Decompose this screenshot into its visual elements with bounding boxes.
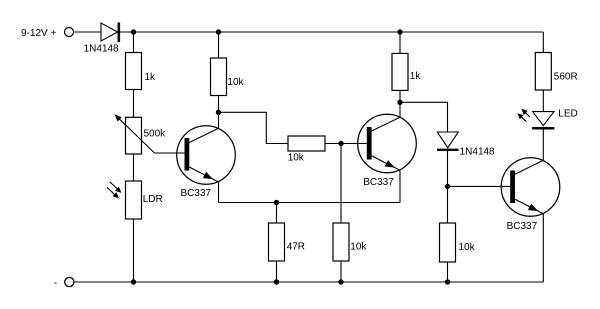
svg-text:10k: 10k bbox=[459, 242, 476, 253]
wire R7 to bottom rail bbox=[447, 262, 449, 282]
node Q2 base junction bbox=[338, 141, 343, 146]
transistor Q1 BC337 bbox=[177, 126, 236, 185]
wire LDR to bottom rail bbox=[133, 219, 135, 282]
svg-text:10k: 10k bbox=[288, 153, 305, 164]
node junction top-left (D1 cathode / R1) bbox=[131, 29, 136, 34]
wire LED to Q3 collector bbox=[542, 128, 544, 160]
LED D3 bbox=[532, 112, 554, 129]
wire emitter rail Q1-Q2 bbox=[219, 202, 401, 204]
resistor R8 560R bbox=[535, 53, 551, 91]
wire R4 to bottom rail bbox=[276, 261, 278, 282]
wire Q3 emitter down bbox=[542, 214, 544, 282]
node bottom rail at R5 bbox=[338, 279, 343, 284]
svg-text:1N4148: 1N4148 bbox=[460, 147, 495, 158]
node bottom rail at R4 bbox=[274, 279, 279, 284]
resistor R3 10k (horizontal) bbox=[288, 136, 325, 151]
node Q1 collector junction bbox=[216, 110, 221, 115]
LDR body bbox=[126, 181, 142, 219]
potentiometer VR1 500k body bbox=[126, 117, 142, 154]
wire top rail corner to R8 bbox=[542, 32, 544, 53]
svg-text:9-12V +: 9-12V + bbox=[21, 28, 56, 39]
node junction top at R2 column bbox=[216, 29, 221, 34]
svg-text:-: - bbox=[54, 278, 57, 289]
terminal + (positive supply) bbox=[65, 28, 74, 37]
wire node to Q3 base bbox=[448, 185, 511, 187]
wire potentiometer to LDR bbox=[133, 154, 135, 181]
svg-text:560R: 560R bbox=[554, 72, 578, 83]
wire D2 to Q3 base node bbox=[447, 150, 449, 186]
svg-text:10k: 10k bbox=[350, 242, 367, 253]
resistor R1 1k bbox=[126, 53, 142, 90]
wire R8 to LED bbox=[542, 90, 544, 112]
wire Q2 collector junction to D2 bbox=[400, 102, 448, 132]
wire top rail bbox=[120, 31, 543, 33]
wire Q1 collector junction to R3 bbox=[219, 112, 289, 143]
LED light arrows bbox=[517, 109, 530, 122]
wire R1 to potentiometer bbox=[133, 90, 135, 118]
wire pot wiper to Q1 base bbox=[155, 152, 185, 154]
svg-text:BC337: BC337 bbox=[363, 177, 394, 188]
transistor Q2 BC337 bbox=[358, 114, 417, 173]
wire top rail to R2 bbox=[218, 32, 220, 58]
wire R2 to Q1 collector bbox=[218, 96, 220, 129]
resistor R4 47R bbox=[269, 223, 285, 261]
svg-text:47R: 47R bbox=[287, 242, 305, 253]
resistor R7 10k bbox=[440, 223, 456, 262]
wire bottom rail bbox=[74, 281, 543, 283]
svg-text:BC337: BC337 bbox=[507, 221, 538, 232]
wire node to R4 bbox=[276, 203, 278, 224]
svg-text:LED: LED bbox=[558, 108, 577, 119]
node Q3 base junction bbox=[445, 184, 450, 189]
node bottom rail at LDR column bbox=[131, 279, 136, 284]
svg-text:1N4148: 1N4148 bbox=[84, 44, 119, 55]
LDR light arrows bbox=[107, 182, 121, 198]
svg-text:10k: 10k bbox=[227, 77, 244, 88]
wire R5 to bottom rail bbox=[340, 261, 342, 282]
wire R6 to Q2 collector bbox=[399, 90, 401, 117]
resistor R6 1k bbox=[392, 53, 408, 90]
diode D2 1N4148 (vertical) bbox=[437, 132, 459, 150]
wire R3 to Q2 base bbox=[325, 143, 367, 145]
potentiometer wiper arrow bbox=[114, 114, 154, 153]
terminal - (negative supply) bbox=[65, 277, 74, 286]
node emitter rail to R4 bbox=[274, 200, 279, 205]
wire node down to R7 bbox=[447, 186, 449, 223]
svg-text:BC337: BC337 bbox=[181, 188, 212, 199]
wire top rail to R1 bbox=[133, 32, 135, 53]
resistor R2 10k bbox=[211, 58, 227, 96]
diode D1 1N4148 bbox=[101, 23, 119, 43]
node Q2 collector junction bbox=[397, 100, 402, 105]
resistor R5 10k bbox=[333, 223, 349, 261]
wire top rail to R6 bbox=[399, 32, 401, 53]
svg-text:LDR: LDR bbox=[143, 194, 163, 205]
node bottom rail at R7 bbox=[445, 279, 450, 284]
svg-text:1k: 1k bbox=[410, 71, 422, 82]
wire Q2 base junction down to R5 bbox=[340, 144, 342, 224]
svg-text:1k: 1k bbox=[145, 72, 157, 83]
transistor Q3 BC337 bbox=[501, 158, 560, 217]
wire terminal to D1 anode bbox=[74, 31, 102, 33]
wire Q2 emitter down bbox=[399, 170, 401, 202]
node junction top at R6 column bbox=[397, 29, 402, 34]
wire Q1 emitter down bbox=[218, 182, 220, 203]
svg-text:500k: 500k bbox=[144, 129, 167, 140]
